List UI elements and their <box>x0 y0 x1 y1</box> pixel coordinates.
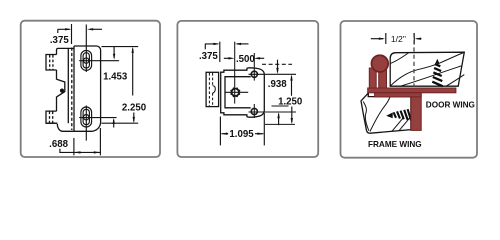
bottom reference extension line <box>265 123 295 125</box>
top slot outer <box>81 50 92 70</box>
frame wing stem <box>411 94 421 130</box>
top lug hole vertical centerline <box>253 53 255 81</box>
svg-text:.375: .375 <box>50 35 69 46</box>
svg-text:.938: .938 <box>268 79 287 90</box>
svg-text:.688: .688 <box>49 139 68 150</box>
plate outline with ear lugs <box>221 68 265 117</box>
bottom hole horizontal centerline <box>79 117 116 119</box>
hinge knuckle <box>371 55 388 72</box>
panel 2 border <box>177 21 318 157</box>
top edge extension line <box>102 46 139 48</box>
cam detent dot <box>60 89 64 93</box>
dim 1.453 (panel 1) <box>113 47 115 128</box>
dim 2.250 (panel 1) <box>133 49 134 122</box>
flange bottom extension line <box>102 122 139 124</box>
hinge pivot legs <box>369 68 376 88</box>
dim .688 (panel 1) <box>60 128 101 155</box>
door board wood grain <box>390 53 464 87</box>
flange bottom edge <box>46 122 57 124</box>
boss bottom extension line <box>272 105 289 107</box>
flange left edge upper <box>56 70 58 80</box>
top lug hole <box>251 71 257 77</box>
hidden dashed line right of top lug <box>262 63 292 65</box>
svg-text:FRAME WING: FRAME WING <box>368 140 422 149</box>
bottom lug hole vertical centerline <box>253 104 255 118</box>
frame wing bar <box>375 93 422 97</box>
frame board wood grain <box>363 97 410 132</box>
svg-text:1.453: 1.453 <box>103 71 128 82</box>
bottom screw circle <box>84 115 89 120</box>
bottom lug hole <box>251 108 257 114</box>
hidden line between flange and body <box>71 48 73 131</box>
svg-text:.500: .500 <box>236 54 255 65</box>
dim .500 (panel 2) <box>224 57 264 59</box>
door wing bar <box>368 88 456 93</box>
dim 1.095 (panel 2) <box>220 113 264 145</box>
door screw <box>432 64 442 86</box>
svg-text:DOOR WING: DOOR WING <box>426 100 475 109</box>
center hole crosshair <box>234 42 236 104</box>
top tab hidden lines <box>49 55 51 70</box>
door panel board <box>390 52 464 86</box>
boss outline <box>225 77 251 108</box>
top screw circle <box>84 58 89 63</box>
bottom slot outer <box>81 107 92 127</box>
center hole <box>232 89 239 96</box>
plate body outline <box>57 46 100 131</box>
frame screw <box>394 109 412 120</box>
dim 1.250 (panel 2) <box>291 76 293 122</box>
bottom lug hole horizontal centerline <box>249 111 297 113</box>
flange left edge lower <box>56 97 58 112</box>
top hole horizontal centerline <box>79 60 119 62</box>
screw pilot dashed centerline <box>413 33 415 87</box>
top slot inner <box>83 53 89 68</box>
top lug hole horizontal centerline <box>249 73 297 75</box>
panel 3 border <box>341 21 478 158</box>
flange front edge <box>67 48 69 123</box>
dim .938 (panel 2) <box>278 60 279 126</box>
svg-text:1.250: 1.250 <box>278 97 302 108</box>
flange hidden lines <box>208 73 210 106</box>
body left edge <box>73 46 75 131</box>
frame panel board <box>361 93 411 133</box>
flange top edge <box>57 48 75 54</box>
dim .375 (panel 1) <box>58 24 102 44</box>
flange middle hook <box>213 86 216 94</box>
top tab <box>46 55 57 71</box>
bottom tab hidden lines <box>49 112 51 123</box>
bottom slot inner <box>83 109 89 124</box>
vertical centerline bottom <box>85 106 87 141</box>
svg-text:2.250: 2.250 <box>122 102 146 113</box>
panel 1 border <box>21 21 160 157</box>
bottom tab <box>46 111 57 123</box>
dim .375 (panel 2) <box>205 42 249 62</box>
cam bump <box>57 79 65 97</box>
vertical centerline top <box>85 25 87 73</box>
svg-text:1.095: 1.095 <box>229 129 254 140</box>
svg-text:.375: .375 <box>199 51 218 62</box>
dim 1/2" <box>371 33 422 45</box>
side flange rect <box>206 72 219 106</box>
center hole knurl <box>230 87 240 97</box>
svg-text:1/2": 1/2" <box>391 34 406 44</box>
